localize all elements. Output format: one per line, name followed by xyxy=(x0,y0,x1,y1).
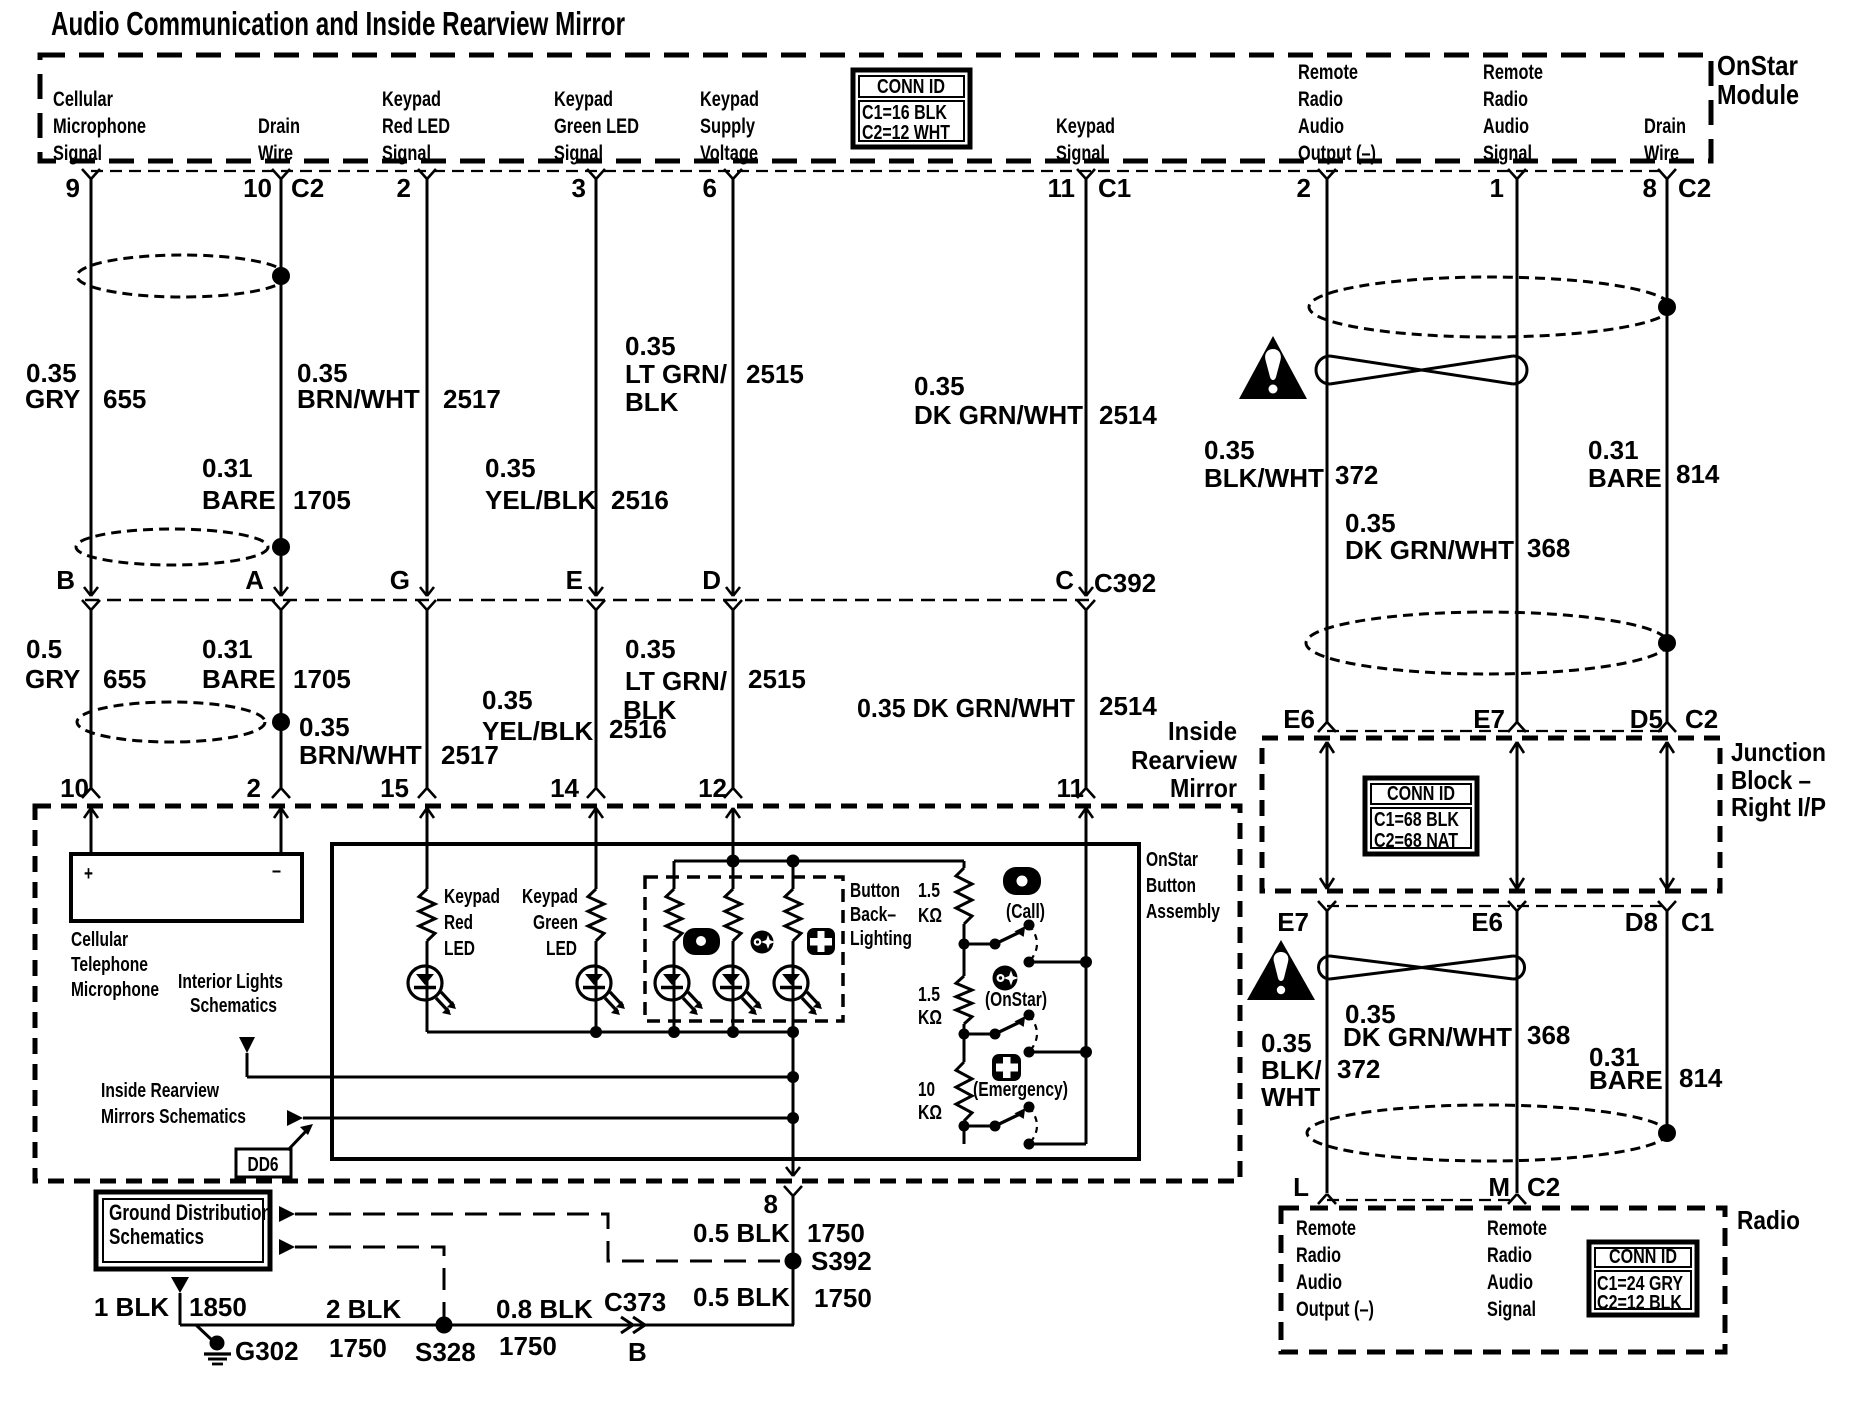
svg-text:C1=68 BLK: C1=68 BLK xyxy=(1374,809,1459,831)
svg-text:1750: 1750 xyxy=(329,1333,387,1363)
wire 0.5 BLK riser xyxy=(792,1204,795,1325)
svg-text:BARE: BARE xyxy=(1589,1065,1663,1095)
wire resistor green to LED xyxy=(595,941,598,1000)
svg-text:CONN ID: CONN ID xyxy=(1609,1246,1677,1268)
wire keypad red LED signal 2517 (upper segment) xyxy=(426,179,429,595)
svg-text:C1=16 BLK: C1=16 BLK xyxy=(862,102,947,124)
label Junction Block - Right I/P xyxy=(1731,737,1826,822)
svg-text:Keypad: Keypad xyxy=(554,88,613,111)
splice S328 xyxy=(436,1317,453,1334)
wire drain wire 1705 BARE (upper segment) xyxy=(280,179,283,595)
junction block terminal E6 caret xyxy=(1318,722,1336,732)
svg-text:0.35: 0.35 xyxy=(914,371,965,401)
label Remote Radio Audio Signal (radio) xyxy=(1487,1217,1547,1321)
svg-text:KΩ: KΩ xyxy=(918,1102,942,1124)
shield ellipse lower (drain/mic) xyxy=(77,702,265,742)
LED keypad red xyxy=(408,966,442,1000)
svg-text:Red: Red xyxy=(444,912,473,934)
svg-text:0.35: 0.35 xyxy=(482,685,533,715)
connector pin 1 terminal chevron xyxy=(1508,169,1526,179)
connector pin 9 terminal chevron xyxy=(82,169,100,179)
wire LED common bus xyxy=(427,1031,793,1034)
icon onstar logo small xyxy=(751,931,776,954)
splice dot on drain 814 lower xyxy=(1658,634,1676,652)
svg-text:655: 655 xyxy=(103,384,146,414)
wire 1 BLK 1850 xyxy=(179,1293,182,1325)
svg-text:Mirrors Schematics: Mirrors Schematics xyxy=(101,1106,246,1128)
resistor keypad green LED xyxy=(588,889,604,941)
svg-text:655: 655 xyxy=(103,664,146,694)
wire chain tail xyxy=(963,1121,966,1144)
svg-text:C1: C1 xyxy=(1681,907,1714,937)
ground feed arrow below box xyxy=(171,1277,189,1293)
wire green LED lower segment C392 to mirror xyxy=(595,610,598,789)
wire backlight emergency resistor to LED xyxy=(792,941,795,1000)
svg-text:372: 372 xyxy=(1335,460,1378,490)
svg-text:Cellular: Cellular xyxy=(53,88,113,111)
wire interior lights drop xyxy=(246,1053,249,1077)
wire supply feed bus xyxy=(674,860,964,863)
wire remote radio audio output 372 (upper) xyxy=(1326,179,1329,723)
svg-text:BARE: BARE xyxy=(202,485,276,515)
svg-text:1850: 1850 xyxy=(189,1292,247,1322)
connector pin 8 terminal chevron xyxy=(1658,169,1676,179)
svg-text:Keypad: Keypad xyxy=(700,88,759,111)
svg-text:D: D xyxy=(702,565,721,595)
svg-text:2517: 2517 xyxy=(443,384,501,414)
DD6 reference tag xyxy=(236,1124,313,1177)
svg-text:Wire: Wire xyxy=(258,142,293,165)
label 1.5 Kohm call xyxy=(918,880,942,927)
svg-text:Keypad: Keypad xyxy=(382,88,441,111)
wire LED green to bus xyxy=(595,1000,598,1032)
svg-text:+: + xyxy=(84,863,93,885)
wire keypad signal inside assembly xyxy=(1085,844,1088,1144)
svg-text:L: L xyxy=(1293,1172,1309,1202)
svg-text:0.35: 0.35 xyxy=(1261,1028,1312,1058)
svg-text:Signal: Signal xyxy=(554,142,603,165)
Inside Rearview Mirror title xyxy=(1131,716,1238,803)
junction onstar contact / keypad signal xyxy=(1080,1046,1092,1058)
svg-text:BLK: BLK xyxy=(625,387,679,417)
svg-text:Voltage: Voltage xyxy=(700,142,758,165)
icon emergency cross large xyxy=(992,1054,1021,1081)
connector pin 6 terminal chevron xyxy=(724,169,742,179)
svg-text:Keypad: Keypad xyxy=(444,886,500,908)
svg-text:Keypad: Keypad xyxy=(522,886,578,908)
mirror connector pin 2 terminal caret and arrow xyxy=(272,788,290,798)
resistor backlight onstar xyxy=(725,889,741,941)
svg-text:C2=12 WHT: C2=12 WHT xyxy=(862,122,950,144)
wire label 0.35 BRN/WHT (lower) xyxy=(299,712,422,770)
svg-text:2514: 2514 xyxy=(1099,691,1157,721)
label Keypad Green LED Signal xyxy=(554,88,639,165)
wire backlight onstar resistor to LED xyxy=(732,941,735,1000)
svg-text:G: G xyxy=(390,565,410,595)
wire keypad green LED feed xyxy=(595,844,598,889)
shield ellipse (remote audio pair) top xyxy=(1309,277,1671,337)
svg-text:D5: D5 xyxy=(1630,704,1663,734)
dashed wire to S392 xyxy=(295,1214,786,1261)
label Inside Rearview Mirrors Schematics xyxy=(101,1080,246,1128)
svg-text:3: 3 xyxy=(572,173,586,203)
resistor backlight call xyxy=(666,889,682,941)
radio terminal L caret xyxy=(1318,1194,1336,1204)
svg-text:Lighting: Lighting xyxy=(850,928,912,950)
icon call (phone) small xyxy=(683,928,720,955)
svg-text:DK GRN/WHT: DK GRN/WHT xyxy=(1343,1022,1512,1052)
svg-text:10: 10 xyxy=(918,1079,935,1101)
svg-text:Rearview: Rearview xyxy=(1131,745,1238,775)
svg-text:YEL/BLK: YEL/BLK xyxy=(485,485,596,515)
wire cellular microphone signal 655 GRY (upper segment) xyxy=(90,179,93,595)
svg-text:Signal: Signal xyxy=(382,142,431,165)
svg-text:E6: E6 xyxy=(1283,704,1315,734)
svg-text:0.5: 0.5 xyxy=(26,634,62,664)
LED backlight emergency xyxy=(774,966,808,1000)
svg-text:Module: Module xyxy=(1717,79,1799,110)
svg-text:1750: 1750 xyxy=(814,1283,872,1313)
OnStar Module label xyxy=(1717,50,1799,110)
junction backlight3/bus xyxy=(787,1026,799,1038)
wire backlight emergency feed xyxy=(792,861,795,889)
svg-text:Button: Button xyxy=(850,880,900,902)
svg-text:C2: C2 xyxy=(1685,704,1718,734)
svg-text:GRY: GRY xyxy=(25,664,80,694)
connector C392 face line xyxy=(85,599,1090,602)
mirror connector pin 10 terminal caret and arrow xyxy=(82,788,100,798)
connector pin 11 terminal chevron xyxy=(1077,169,1095,179)
wire ground return to pin 8 xyxy=(792,1032,795,1176)
svg-text:0.35 DK GRN/WHT: 0.35 DK GRN/WHT xyxy=(857,693,1075,723)
svg-text:Output (–): Output (–) xyxy=(1298,142,1376,165)
junction block internal wire 814 path xyxy=(1666,742,1669,889)
twisted pair symbol lower xyxy=(1319,956,1525,979)
svg-text:LED: LED xyxy=(444,938,475,960)
svg-text:DD6: DD6 xyxy=(248,1154,279,1176)
svg-text:Audio: Audio xyxy=(1298,115,1344,138)
junction block internal wire 368 path xyxy=(1516,742,1519,889)
wire label 0.35 DK GRN/WHT (right) xyxy=(1345,508,1514,565)
junction supply/backlight3 xyxy=(787,855,800,868)
svg-text:DK GRN/WHT: DK GRN/WHT xyxy=(1345,535,1514,565)
svg-text:OnStar: OnStar xyxy=(1717,50,1798,81)
svg-text:0.35: 0.35 xyxy=(625,331,676,361)
svg-text:WHT: WHT xyxy=(1261,1082,1320,1112)
svg-text:Block –: Block – xyxy=(1731,765,1811,795)
wire label 0.31 BARE bottom xyxy=(1589,1042,1663,1095)
shield ellipse (remote audio pair) lower xyxy=(1306,612,1668,674)
wire label 0.31 BARE xyxy=(202,453,276,515)
svg-text:0.35: 0.35 xyxy=(1204,435,1255,465)
svg-text:Audio Communication and Inside: Audio Communication and Inside Rearview … xyxy=(51,5,625,42)
connector pin 2 terminal chevron xyxy=(418,169,436,179)
svg-text:Signal: Signal xyxy=(1487,1298,1536,1321)
svg-text:0.8 BLK: 0.8 BLK xyxy=(496,1294,593,1324)
resistor keypad red LED xyxy=(419,889,435,941)
wire stub to G302 xyxy=(196,1325,213,1341)
svg-text:8: 8 xyxy=(1643,173,1657,203)
label Remote Radio Audio Output (-) xyxy=(1298,61,1376,165)
svg-text:1750: 1750 xyxy=(499,1331,557,1361)
wire backlight call feed xyxy=(673,861,676,889)
svg-text:Remote: Remote xyxy=(1483,61,1543,84)
connector ID table C1=24 GRY / C2=12 BLK xyxy=(1589,1242,1697,1315)
svg-text:Microphone: Microphone xyxy=(71,979,159,1001)
C392 terminal B (arrow + chevron) xyxy=(84,587,98,596)
C392 terminal D (arrow + chevron) xyxy=(726,587,740,596)
wire keypad red LED feed xyxy=(426,844,429,889)
OnStar Button Assembly box xyxy=(332,844,1139,1159)
svg-text:1.5: 1.5 xyxy=(918,880,940,902)
wire chain segment 1 xyxy=(963,924,966,976)
wire label 0.35 DK GRN/WHT bottom xyxy=(1343,999,1512,1052)
wire label 0.35 YEL/BLK xyxy=(485,453,596,515)
wire supply lower segment C392 to mirror xyxy=(732,610,735,789)
mirror connector pin 14 terminal caret and arrow xyxy=(587,788,605,798)
wire drain 814 lower xyxy=(1666,911,1669,1133)
twisted pair symbol (372/368) xyxy=(1316,356,1527,384)
ground G302 symbol xyxy=(204,1336,231,1365)
svg-text:DK GRN/WHT: DK GRN/WHT xyxy=(914,400,1083,430)
svg-text:14: 14 xyxy=(550,773,579,803)
svg-text:YEL/BLK: YEL/BLK xyxy=(482,716,593,746)
ground bus wire xyxy=(180,1324,794,1327)
svg-text:Radio: Radio xyxy=(1296,1244,1341,1267)
junction supply/backlight2 xyxy=(727,855,740,868)
wire 368 to radio xyxy=(1516,911,1519,1193)
svg-text:0.31: 0.31 xyxy=(202,634,253,664)
wire label 0.35 LT GRN/BLK xyxy=(625,331,727,417)
svg-text:C392: C392 xyxy=(1094,568,1156,598)
svg-text:Remote: Remote xyxy=(1487,1217,1547,1240)
svg-text:Drain: Drain xyxy=(258,115,300,138)
splice dot on drain wire xyxy=(272,267,290,285)
switch emergency button xyxy=(959,1102,1087,1150)
svg-text:Radio: Radio xyxy=(1737,1205,1800,1235)
C392 terminal G (arrow + chevron) xyxy=(420,587,434,596)
connector pin 10 terminal chevron xyxy=(272,169,290,179)
svg-text:9: 9 xyxy=(66,173,80,203)
svg-text:Wire: Wire xyxy=(1644,142,1679,165)
svg-text:CONN ID: CONN ID xyxy=(1387,783,1455,805)
svg-text:A: A xyxy=(245,565,264,595)
junction block internal wire 372 path xyxy=(1326,742,1329,889)
resistor 10 Kohm (emergency) xyxy=(956,1062,972,1121)
wire label 0.35 DK GRN/WHT xyxy=(914,371,1083,430)
label Keypad Red LED Signal xyxy=(382,88,450,165)
C392 terminal C (arrow + chevron) xyxy=(1079,587,1093,596)
wire label 0.5 GRY xyxy=(25,634,80,694)
svg-text:CONN ID: CONN ID xyxy=(877,76,945,98)
svg-text:OnStar: OnStar xyxy=(1146,849,1198,871)
wire label 0.35 GRY xyxy=(25,358,80,414)
Ground Distribution Schematics reference box xyxy=(96,1192,272,1269)
svg-text:6: 6 xyxy=(703,173,717,203)
wire backlight emergency LED to bus xyxy=(792,1000,795,1032)
label Button Back-Lighting xyxy=(850,880,912,950)
OnStar module connector face line xyxy=(91,170,1667,172)
mirror connector pin 11 terminal caret and arrow xyxy=(1077,788,1095,798)
svg-text:814: 814 xyxy=(1679,1063,1723,1093)
wire label 0.35 LT GRN/BLK (lower) xyxy=(623,634,727,725)
svg-text:0.31: 0.31 xyxy=(202,453,253,483)
svg-text:0.35: 0.35 xyxy=(299,712,350,742)
warning triangle (radio circuit note) xyxy=(1247,940,1315,1000)
wire remote radio audio signal 368 (upper) xyxy=(1516,179,1519,723)
label Cellular Microphone Signal xyxy=(53,88,146,165)
svg-text:D8: D8 xyxy=(1625,907,1658,937)
svg-text:M: M xyxy=(1488,1172,1510,1202)
assembly exit arrow xyxy=(786,1167,800,1176)
junction block terminal E7 caret xyxy=(1508,722,1526,732)
junction lower terminal D8 chevron xyxy=(1658,901,1676,911)
svg-text:1.5: 1.5 xyxy=(918,984,940,1006)
svg-text:2515: 2515 xyxy=(746,359,804,389)
svg-text:(Call): (Call) xyxy=(1006,901,1045,923)
svg-text:2516: 2516 xyxy=(611,485,669,515)
svg-text:Red LED: Red LED xyxy=(382,115,450,138)
wire supply to resistor chain xyxy=(963,861,966,868)
svg-text:LT GRN/: LT GRN/ xyxy=(625,359,727,389)
wire label 0.35 BLK/WHT xyxy=(1204,435,1324,493)
svg-text:Ground Distribution: Ground Distribution xyxy=(109,1200,272,1225)
junction green LED/bus xyxy=(590,1026,602,1038)
LED keypad green xyxy=(577,966,611,1000)
junction block connector face line (bottom) xyxy=(1327,905,1667,907)
wire 372 to radio xyxy=(1326,911,1329,1193)
svg-text:BLK/WHT: BLK/WHT xyxy=(1204,463,1324,493)
svg-text:0.35: 0.35 xyxy=(485,453,536,483)
resistor 1.5 Kohm (onstar) xyxy=(956,976,972,1024)
svg-text:15: 15 xyxy=(380,773,409,803)
svg-text:Right I/P: Right I/P xyxy=(1731,792,1826,822)
label 1.5 Kohm onstar xyxy=(918,984,942,1029)
svg-text:B: B xyxy=(628,1337,647,1367)
radio connector face line xyxy=(1327,1199,1517,1201)
svg-text:1: 1 xyxy=(1490,173,1504,203)
svg-text:1 BLK: 1 BLK xyxy=(94,1292,169,1322)
svg-text:Schematics: Schematics xyxy=(190,995,277,1017)
mirror connector pin 15 terminal caret and arrow xyxy=(418,788,436,798)
label Remote Radio Audio Signal xyxy=(1483,61,1543,165)
label Keypad Supply Voltage xyxy=(700,88,759,165)
cellular telephone microphone element xyxy=(71,854,302,921)
svg-text:2514: 2514 xyxy=(1099,400,1157,430)
svg-text:11: 11 xyxy=(1048,173,1076,203)
svg-text:C2: C2 xyxy=(1678,173,1711,203)
svg-text:Keypad: Keypad xyxy=(1056,115,1115,138)
svg-text:Interior Lights: Interior Lights xyxy=(178,971,283,993)
svg-text:0.5 BLK: 0.5 BLK xyxy=(693,1282,790,1312)
svg-text:LED: LED xyxy=(546,938,577,960)
svg-text:Radio: Radio xyxy=(1483,88,1528,111)
svg-text:BRN/WHT: BRN/WHT xyxy=(297,384,420,414)
svg-text:Signal: Signal xyxy=(1056,142,1105,165)
svg-text:BLK: BLK xyxy=(623,695,677,725)
mirrors schematics reference arrow xyxy=(287,1110,303,1126)
wire keypad signal lower segment C392 to mirror xyxy=(1085,610,1088,789)
junction backlight return xyxy=(787,1071,799,1083)
splice dot drain to shield xyxy=(1658,1124,1676,1142)
connector pin 2 terminal chevron xyxy=(1318,169,1336,179)
resistor backlight emergency xyxy=(785,889,801,941)
svg-text:KΩ: KΩ xyxy=(918,1007,942,1029)
svg-text:368: 368 xyxy=(1527,533,1570,563)
svg-text:2: 2 xyxy=(1297,173,1311,203)
connector ID table C1=68 BLK / C2=68 NAT xyxy=(1365,778,1477,854)
svg-text:BARE: BARE xyxy=(202,664,276,694)
svg-text:2: 2 xyxy=(247,773,261,803)
svg-text:Remote: Remote xyxy=(1298,61,1358,84)
OnStar Module boundary box xyxy=(40,55,1711,161)
shield ellipse (drain/mic pair) middle xyxy=(76,529,268,565)
mirror connector pin 12 terminal caret and arrow xyxy=(724,788,742,798)
svg-text:8: 8 xyxy=(764,1189,778,1219)
connector C373 chevrons xyxy=(621,1317,645,1333)
svg-text:0.31: 0.31 xyxy=(1588,435,1639,465)
junction mirrors ground xyxy=(787,1112,799,1124)
Radio boundary box xyxy=(1281,1208,1725,1352)
icon call (phone) large xyxy=(1003,867,1041,895)
wire mic signal lower segment C392 to mirror xyxy=(90,610,93,789)
junction block terminal D5 caret xyxy=(1658,722,1676,732)
svg-text:Drain: Drain xyxy=(1644,115,1686,138)
svg-text:E: E xyxy=(566,565,583,595)
svg-text:368: 368 xyxy=(1527,1020,1570,1050)
wire label 0.35 BLK/WHT lower xyxy=(1261,1028,1322,1112)
svg-text:Junction: Junction xyxy=(1731,737,1826,767)
label Keypad Signal xyxy=(1056,115,1115,165)
svg-text:BARE: BARE xyxy=(1588,463,1662,493)
label 10 Kohm emergency xyxy=(918,1079,942,1124)
wire mirrors schematics to ground bus xyxy=(303,1117,793,1120)
mirror exit fork chevron xyxy=(784,1186,802,1196)
svg-text:Audio: Audio xyxy=(1487,1271,1533,1294)
wire mic + lead xyxy=(90,808,93,854)
label Drain Wire (right) xyxy=(1644,115,1686,165)
interior lights reference arrow xyxy=(239,1037,255,1053)
label Keypad Red LED xyxy=(444,886,500,960)
svg-text:10: 10 xyxy=(60,773,89,803)
splice dot on drain wire 3 xyxy=(272,713,290,731)
connector ID table C1=16 BLK / C2=12 WHT xyxy=(853,70,970,147)
splice S392 xyxy=(785,1253,802,1270)
svg-text:Telephone: Telephone xyxy=(71,954,148,976)
wire red LED lower segment C392 to mirror xyxy=(426,610,429,789)
wire backlight call LED to bus xyxy=(673,1000,676,1032)
svg-text:Supply: Supply xyxy=(700,115,755,138)
svg-text:Output (–): Output (–) xyxy=(1296,1298,1374,1321)
Junction Block - Right I/P boundary box xyxy=(1262,738,1720,891)
svg-text:(Emergency): (Emergency) xyxy=(973,1079,1068,1101)
svg-text:–: – xyxy=(272,860,281,882)
svg-text:C2=12 BLK: C2=12 BLK xyxy=(1597,1292,1682,1314)
wire label 0.35 BRN/WHT xyxy=(297,358,420,414)
shield ellipse (drain/mic pair) top xyxy=(77,255,287,297)
svg-text:BRN/WHT: BRN/WHT xyxy=(299,740,422,770)
junction call contact / keypad signal xyxy=(1080,956,1092,968)
svg-text:C: C xyxy=(1055,565,1074,595)
wire drain 814 (upper) xyxy=(1666,179,1669,723)
svg-text:1705: 1705 xyxy=(293,485,351,515)
resistor 1.5 Kohm (call) xyxy=(956,868,972,924)
svg-text:0.5 BLK: 0.5 BLK xyxy=(693,1218,790,1248)
svg-text:11: 11 xyxy=(1057,773,1085,803)
C392 terminal A (arrow + chevron) xyxy=(274,587,288,596)
LED backlight onstar xyxy=(714,966,748,1000)
wire label 0.31 BARE (lower) xyxy=(202,634,276,694)
